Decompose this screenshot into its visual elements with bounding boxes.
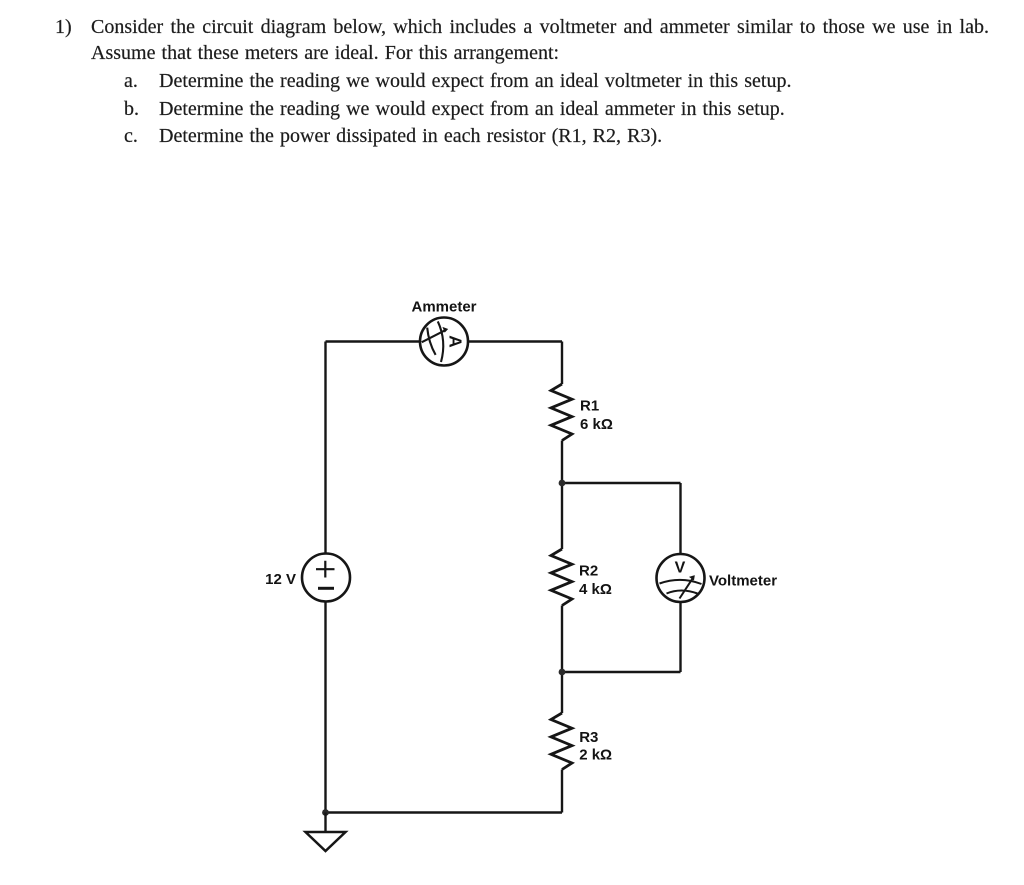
ammeter scale inner arc <box>427 328 435 355</box>
voltmeter U2 circle <box>657 554 705 602</box>
voltmeter needle arrowhead <box>690 576 694 580</box>
voltmeter needle <box>680 578 693 598</box>
voltage source minus sign <box>318 587 334 590</box>
wire top from battery branch to right branch <box>326 340 563 342</box>
resistor R2 <box>551 549 572 606</box>
svg-text:R1: R1 <box>580 397 599 414</box>
wire voltmeter branch bottom <box>562 671 681 673</box>
svg-text:A: A <box>445 335 465 348</box>
svg-text:Voltmeter: Voltmeter <box>709 572 777 589</box>
wire right vertical segment above R1 <box>561 342 563 385</box>
wire voltmeter branch top <box>562 482 681 484</box>
problem statement text <box>55 14 72 40</box>
ammeter U1 circle <box>420 318 468 366</box>
ammeter scale outer arc <box>438 321 443 362</box>
wire bottom <box>326 811 563 813</box>
ammeter needle arrowhead <box>443 328 447 332</box>
svg-text:R2: R2 <box>579 562 598 579</box>
wire left vertical (through battery) <box>324 342 326 813</box>
ground wire stub <box>324 813 326 833</box>
resistor R1 <box>551 384 572 441</box>
svg-text:4 kΩ: 4 kΩ <box>579 581 612 598</box>
svg-text:6 kΩ: 6 kΩ <box>580 416 613 433</box>
wire below R3 <box>561 770 563 813</box>
ammeter needle <box>422 330 445 342</box>
voltage source plus sign <box>316 561 335 578</box>
ground symbol <box>306 832 346 851</box>
svg-text:12 V: 12 V <box>265 571 296 588</box>
wire between R2 and R3 <box>561 606 563 714</box>
svg-text:Ammeter: Ammeter <box>411 298 476 315</box>
wire voltmeter branch right vertical <box>679 483 681 672</box>
svg-text:R3: R3 <box>579 729 598 746</box>
voltage source V1 circle <box>302 554 350 602</box>
svg-text:2 kΩ: 2 kΩ <box>579 747 612 764</box>
resistor R3 <box>551 713 572 770</box>
svg-text:V: V <box>675 560 686 577</box>
node junction top (R1-R2 / voltmeter) <box>559 480 566 487</box>
wire between R1 and R2 <box>561 441 563 550</box>
voltmeter scale outer arc <box>660 580 702 584</box>
voltmeter scale inner arc <box>667 591 698 594</box>
node junction ground <box>322 809 329 816</box>
node junction bottom (R2-R3 / voltmeter) <box>559 669 566 676</box>
